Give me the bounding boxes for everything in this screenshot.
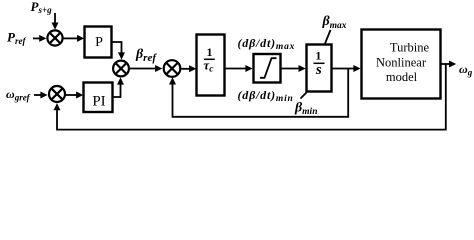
svg-text:1: 1 (315, 49, 321, 63)
wire pitch feedback (bus A) to summer S4 (169, 69, 348, 117)
svg-text:s: s (315, 62, 322, 78)
svg-text:Turbine: Turbine (390, 41, 430, 55)
wire Pref into summer S1 (33, 35, 46, 42)
svg-text:Nonlinear: Nonlinear (376, 56, 427, 70)
wire speed feedback (bus B) to summer S2 (54, 64, 446, 130)
wire S4 to 1/tau_c block (181, 65, 196, 72)
wire PI to summer S3 (113, 77, 125, 97)
wire omega_gref into summer S2 (34, 92, 48, 99)
summing junction S3 (113, 61, 129, 77)
wire S2 to PI block (66, 92, 84, 99)
wire 1/tau_c to rate limiter (225, 65, 253, 72)
limit tick lower on integrator (301, 93, 307, 99)
block P (proportional) (85, 27, 112, 58)
wire rate limiter to 1/s (281, 65, 306, 72)
wire Ps+g down into summer S1 (52, 13, 59, 30)
block turbine nonlinear model (362, 30, 441, 99)
wire P block to summer S3 (112, 42, 125, 60)
block rate limiter (254, 54, 281, 83)
summing junction S1 (47, 30, 62, 45)
block PI (proportional-integral) (84, 83, 113, 113)
block 1/tau_c (pitch servo lag) (197, 35, 225, 96)
wire S1 to P block (64, 35, 85, 42)
wire S3 to S4 (130, 65, 162, 72)
svg-text:model: model (386, 70, 418, 84)
summing junction S2 (49, 86, 65, 102)
svg-text:P: P (95, 35, 103, 50)
wire 1/s to turbine block (with branch node) (332, 65, 361, 72)
wire turbine output to omega_g (441, 61, 456, 68)
block 1/s integrator (307, 45, 332, 92)
svg-text:PI: PI (92, 94, 105, 110)
limit tick upper on integrator (325, 30, 331, 44)
summing junction S4 (164, 60, 181, 77)
